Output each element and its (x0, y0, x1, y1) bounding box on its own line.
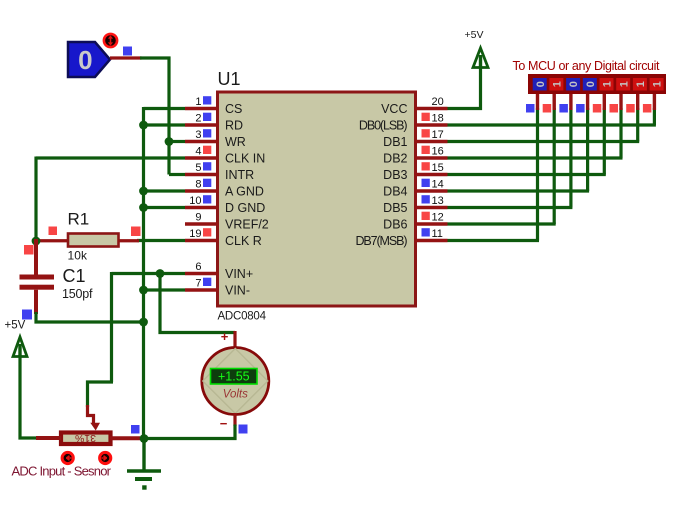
svg-text:7: 7 (195, 278, 201, 290)
svg-text:WR: WR (225, 135, 246, 149)
junction: A GND tap (139, 187, 148, 196)
potentiometer left lead (36, 436, 61, 440)
capacitor C1 plate 1 (20, 275, 55, 280)
IC U1 ADC0804 body (218, 92, 416, 306)
svg-text:VIN-: VIN- (225, 284, 250, 298)
pin 13 DB5 (right) (415, 206, 448, 209)
svg-text:0: 0 (78, 45, 92, 75)
svg-text:+1.55: +1.55 (218, 370, 250, 384)
resistor R1 lead right (119, 239, 140, 242)
junction: R1 / C1 / CLK IN node (32, 237, 41, 246)
probe pin stub 1 (536, 94, 539, 110)
potentiometer decrement button (62, 452, 73, 463)
pin 6 VIN+ (left) (185, 272, 218, 275)
pin 5 INTR (left) (185, 173, 218, 176)
power terminal +5V (top) (473, 48, 488, 68)
svg-text:DB0(LSB): DB0(LSB) (359, 119, 408, 133)
svg-text:0: 0 (568, 81, 580, 87)
logic probe cell 6 value 1 (616, 78, 630, 91)
svg-text:U1: U1 (218, 69, 241, 89)
wire: CLK R (pin19) from R1 (137, 239, 185, 242)
wire: DB2 to probe 6 (448, 156, 623, 159)
svg-text:1: 1 (618, 81, 630, 87)
marker probe 4 (576, 104, 585, 113)
marker probe 1 (526, 104, 535, 113)
svg-text:31%: 31% (75, 432, 96, 444)
marker probe 7 (626, 104, 635, 113)
wire: VIN+ vertical down (110, 272, 113, 382)
junction: D GND tap (139, 203, 148, 212)
potentiometer RV1 body (61, 433, 111, 445)
capacitor C1 bottom lead (34, 290, 38, 314)
svg-text:RD: RD (225, 119, 243, 133)
wire: voltmeter + branch (160, 272, 235, 333)
wire: ground net vertical (142, 107, 145, 440)
wire: CS (pin1) (144, 107, 186, 110)
marker probe 3 (559, 104, 568, 113)
wire: +5V down to pot left (20, 355, 38, 438)
node marker (logic state output low) (123, 47, 132, 56)
wire: logic state to net (110, 56, 142, 59)
svg-text:15: 15 (432, 162, 444, 174)
wire: voltmeter - to ground node (144, 425, 235, 439)
probe pin stub 8 (653, 94, 656, 110)
svg-text:+: + (221, 329, 229, 344)
svg-text:DB5: DB5 (383, 201, 407, 215)
pin 17 DB1 (right) (415, 140, 448, 143)
pin 1 CS (left) (185, 107, 218, 110)
svg-text:VIN+: VIN+ (225, 267, 253, 281)
svg-text:CLK R: CLK R (225, 234, 262, 248)
power terminal +5V (bottom) (13, 337, 27, 357)
svg-text:ADC Input - Sesnor: ADC Input - Sesnor (12, 464, 112, 479)
logic probe cell 3 value 0 (566, 78, 580, 91)
pin 4 CLK IN (left) (185, 156, 218, 159)
wire: DB4 to probe 4 (448, 189, 590, 192)
svg-text:16: 16 (432, 146, 444, 158)
svg-text:VCC: VCC (381, 102, 407, 116)
junction: ground rail joins ground vertical (139, 318, 148, 327)
junction: WR tap (165, 137, 174, 146)
wire: VCC to +5V (448, 66, 481, 109)
marker probe 8 (643, 104, 652, 113)
wire: RD (pin2) (144, 123, 186, 126)
pin 3 WR (left) (185, 140, 218, 143)
svg-text:1: 1 (602, 81, 614, 87)
wire: VIN- (pin7) (144, 288, 186, 291)
wire: A GND (pin8) (144, 189, 186, 192)
marker: CLK R net high (131, 227, 141, 237)
svg-text:+5V: +5V (465, 29, 484, 41)
svg-text:9: 9 (195, 212, 201, 224)
wire: ground stem (142, 439, 145, 472)
voltmeter display (211, 369, 258, 385)
wire: vertical from logic state down to INTR (167, 57, 170, 175)
svg-text:A GND: A GND (225, 185, 264, 199)
svg-text:VREF/2: VREF/2 (225, 218, 269, 232)
logic probe cell 4 value 0 (583, 78, 597, 91)
wire: VIN+ (pin6) (112, 272, 186, 275)
svg-text:CS: CS (225, 102, 242, 116)
svg-text:3: 3 (195, 129, 201, 141)
logic probe cell 5 value 1 (600, 78, 614, 91)
probe pin stub 2 (553, 94, 556, 110)
pin 15 DB3 (right) (415, 173, 448, 176)
svg-text:4: 4 (195, 146, 201, 158)
svg-text:1: 1 (552, 81, 564, 87)
svg-text:DB7(MSB): DB7(MSB) (356, 234, 408, 248)
pin 10 D GND (left) (185, 206, 218, 209)
svg-text:8: 8 (195, 179, 201, 191)
wire: DB7 to probe 1 (448, 239, 540, 242)
svg-text:150pf: 150pf (62, 287, 93, 301)
potentiometer wiper arrow (88, 405, 94, 423)
voltmeter bottom lead (233, 413, 236, 426)
capacitor C1 top lead (34, 239, 38, 275)
svg-text:19: 19 (189, 228, 201, 240)
junction: voltmeter tap on VIN+ (156, 269, 165, 278)
svg-text:11: 11 (432, 228, 443, 240)
svg-text:To MCU or any Digital circuit: To MCU or any Digital circuit (513, 59, 661, 73)
logic probe cell 8 value 1 (650, 78, 664, 91)
svg-text:DB3: DB3 (383, 168, 407, 182)
svg-text:ADC0804: ADC0804 (218, 311, 267, 323)
svg-text:1: 1 (635, 81, 647, 87)
marker: pot right net low (131, 425, 140, 434)
resistor R1 body (68, 234, 119, 247)
junction: pot right / voltmeter - / ground (140, 434, 149, 443)
pin 12 DB6 (right) (415, 222, 448, 225)
probe pin stub 6 (619, 94, 622, 110)
svg-text:INTR: INTR (225, 168, 254, 182)
marker: voltmeter - net low (239, 425, 248, 434)
capacitor C1 plate 2 (20, 285, 55, 290)
logic state toggle button (104, 34, 117, 47)
logic probe cell 7 value 1 (633, 78, 647, 91)
pin 16 DB2 (right) (415, 156, 448, 159)
svg-text:Volts: Volts (223, 389, 248, 401)
svg-text:0: 0 (585, 81, 597, 87)
svg-text:+5V: +5V (5, 320, 26, 332)
svg-text:5: 5 (195, 162, 201, 174)
svg-text:0: 0 (535, 81, 547, 87)
junction: RD tap (139, 121, 148, 130)
svg-text:CLK IN: CLK IN (225, 152, 265, 166)
svg-text:DB6: DB6 (383, 218, 407, 232)
probe pin stub 3 (569, 94, 572, 110)
svg-text:6: 6 (195, 261, 201, 273)
logic probe bar (528, 74, 666, 94)
wire: DB0 to probe 8 (448, 123, 656, 126)
svg-text:20: 20 (432, 96, 444, 108)
marker probe 2 (543, 104, 552, 113)
svg-text:13: 13 (432, 195, 444, 207)
logic probe cell 2 value 1 (549, 78, 563, 91)
wire: C1 bottom to ground rail (36, 312, 145, 322)
svg-text:−: − (220, 416, 228, 431)
pin 8 A GND (left) (185, 189, 218, 192)
svg-text:D GND: D GND (225, 201, 265, 215)
wire: DB1 to probe 7 (448, 140, 640, 143)
pin 7 VIN- (left) (185, 288, 218, 291)
logic state probe (0) (68, 42, 110, 77)
wire: CLK IN (pin4) long horizontal (36, 156, 185, 159)
pin 9 VREF/2 (left) (185, 222, 218, 225)
pin 14 DB4 (right) (415, 189, 448, 192)
pin 19 CLK R (left) (185, 239, 218, 242)
wire: D GND (pin10) (144, 206, 186, 209)
svg-text:DB2: DB2 (383, 152, 407, 166)
voltmeter top lead (233, 331, 236, 349)
voltmeter inner diamond (203, 349, 268, 414)
wire: WR (pin3) (169, 140, 185, 143)
svg-text:DB1: DB1 (383, 135, 407, 149)
marker probe 5 (593, 104, 602, 113)
marker: CLK IN net high (49, 227, 58, 236)
pin 18 DB0(LSB) (right) (415, 123, 448, 126)
probe pin stub 4 (586, 94, 589, 110)
potentiometer increment button (100, 452, 111, 463)
svg-text:1: 1 (652, 81, 664, 87)
svg-text:C1: C1 (63, 266, 86, 286)
wire: DB5 to probe 3 (448, 206, 573, 209)
marker: C1 bottom net low (22, 310, 32, 320)
probe pin stub 7 (636, 94, 639, 110)
svg-text:18: 18 (432, 113, 444, 125)
wire: DB3 to probe 5 (448, 173, 606, 176)
svg-text:10k: 10k (68, 249, 89, 263)
svg-text:14: 14 (432, 179, 444, 191)
potentiometer right lead (110, 436, 140, 440)
ground symbol (127, 469, 161, 473)
pin 11 DB7(MSB) (right) (415, 239, 448, 242)
wire: INTR (pin5) (169, 173, 185, 176)
svg-text:DB4: DB4 (383, 185, 407, 199)
logic probe cell 1 value 0 (533, 78, 547, 91)
svg-text:12: 12 (432, 212, 444, 224)
svg-text:2: 2 (195, 113, 201, 125)
voltmeter body (202, 348, 269, 415)
marker probe 6 (610, 104, 619, 113)
svg-text:R1: R1 (68, 210, 90, 229)
resistor R1 lead left (36, 239, 68, 242)
pin 2 RD (left) (185, 123, 218, 126)
junction: VIN- tap (139, 286, 148, 295)
svg-text:10: 10 (189, 195, 201, 207)
probe pin stub 5 (603, 94, 606, 110)
pin 20 VCC (right) (415, 107, 448, 110)
svg-text:17: 17 (432, 129, 444, 141)
marker: vertical net high (24, 245, 34, 255)
wire: vertical CLK IN to R1 left (34, 157, 37, 242)
svg-text:1: 1 (195, 96, 201, 108)
wire: DB6 to probe 2 (448, 222, 556, 225)
wire: jog to wiper (88, 382, 114, 407)
